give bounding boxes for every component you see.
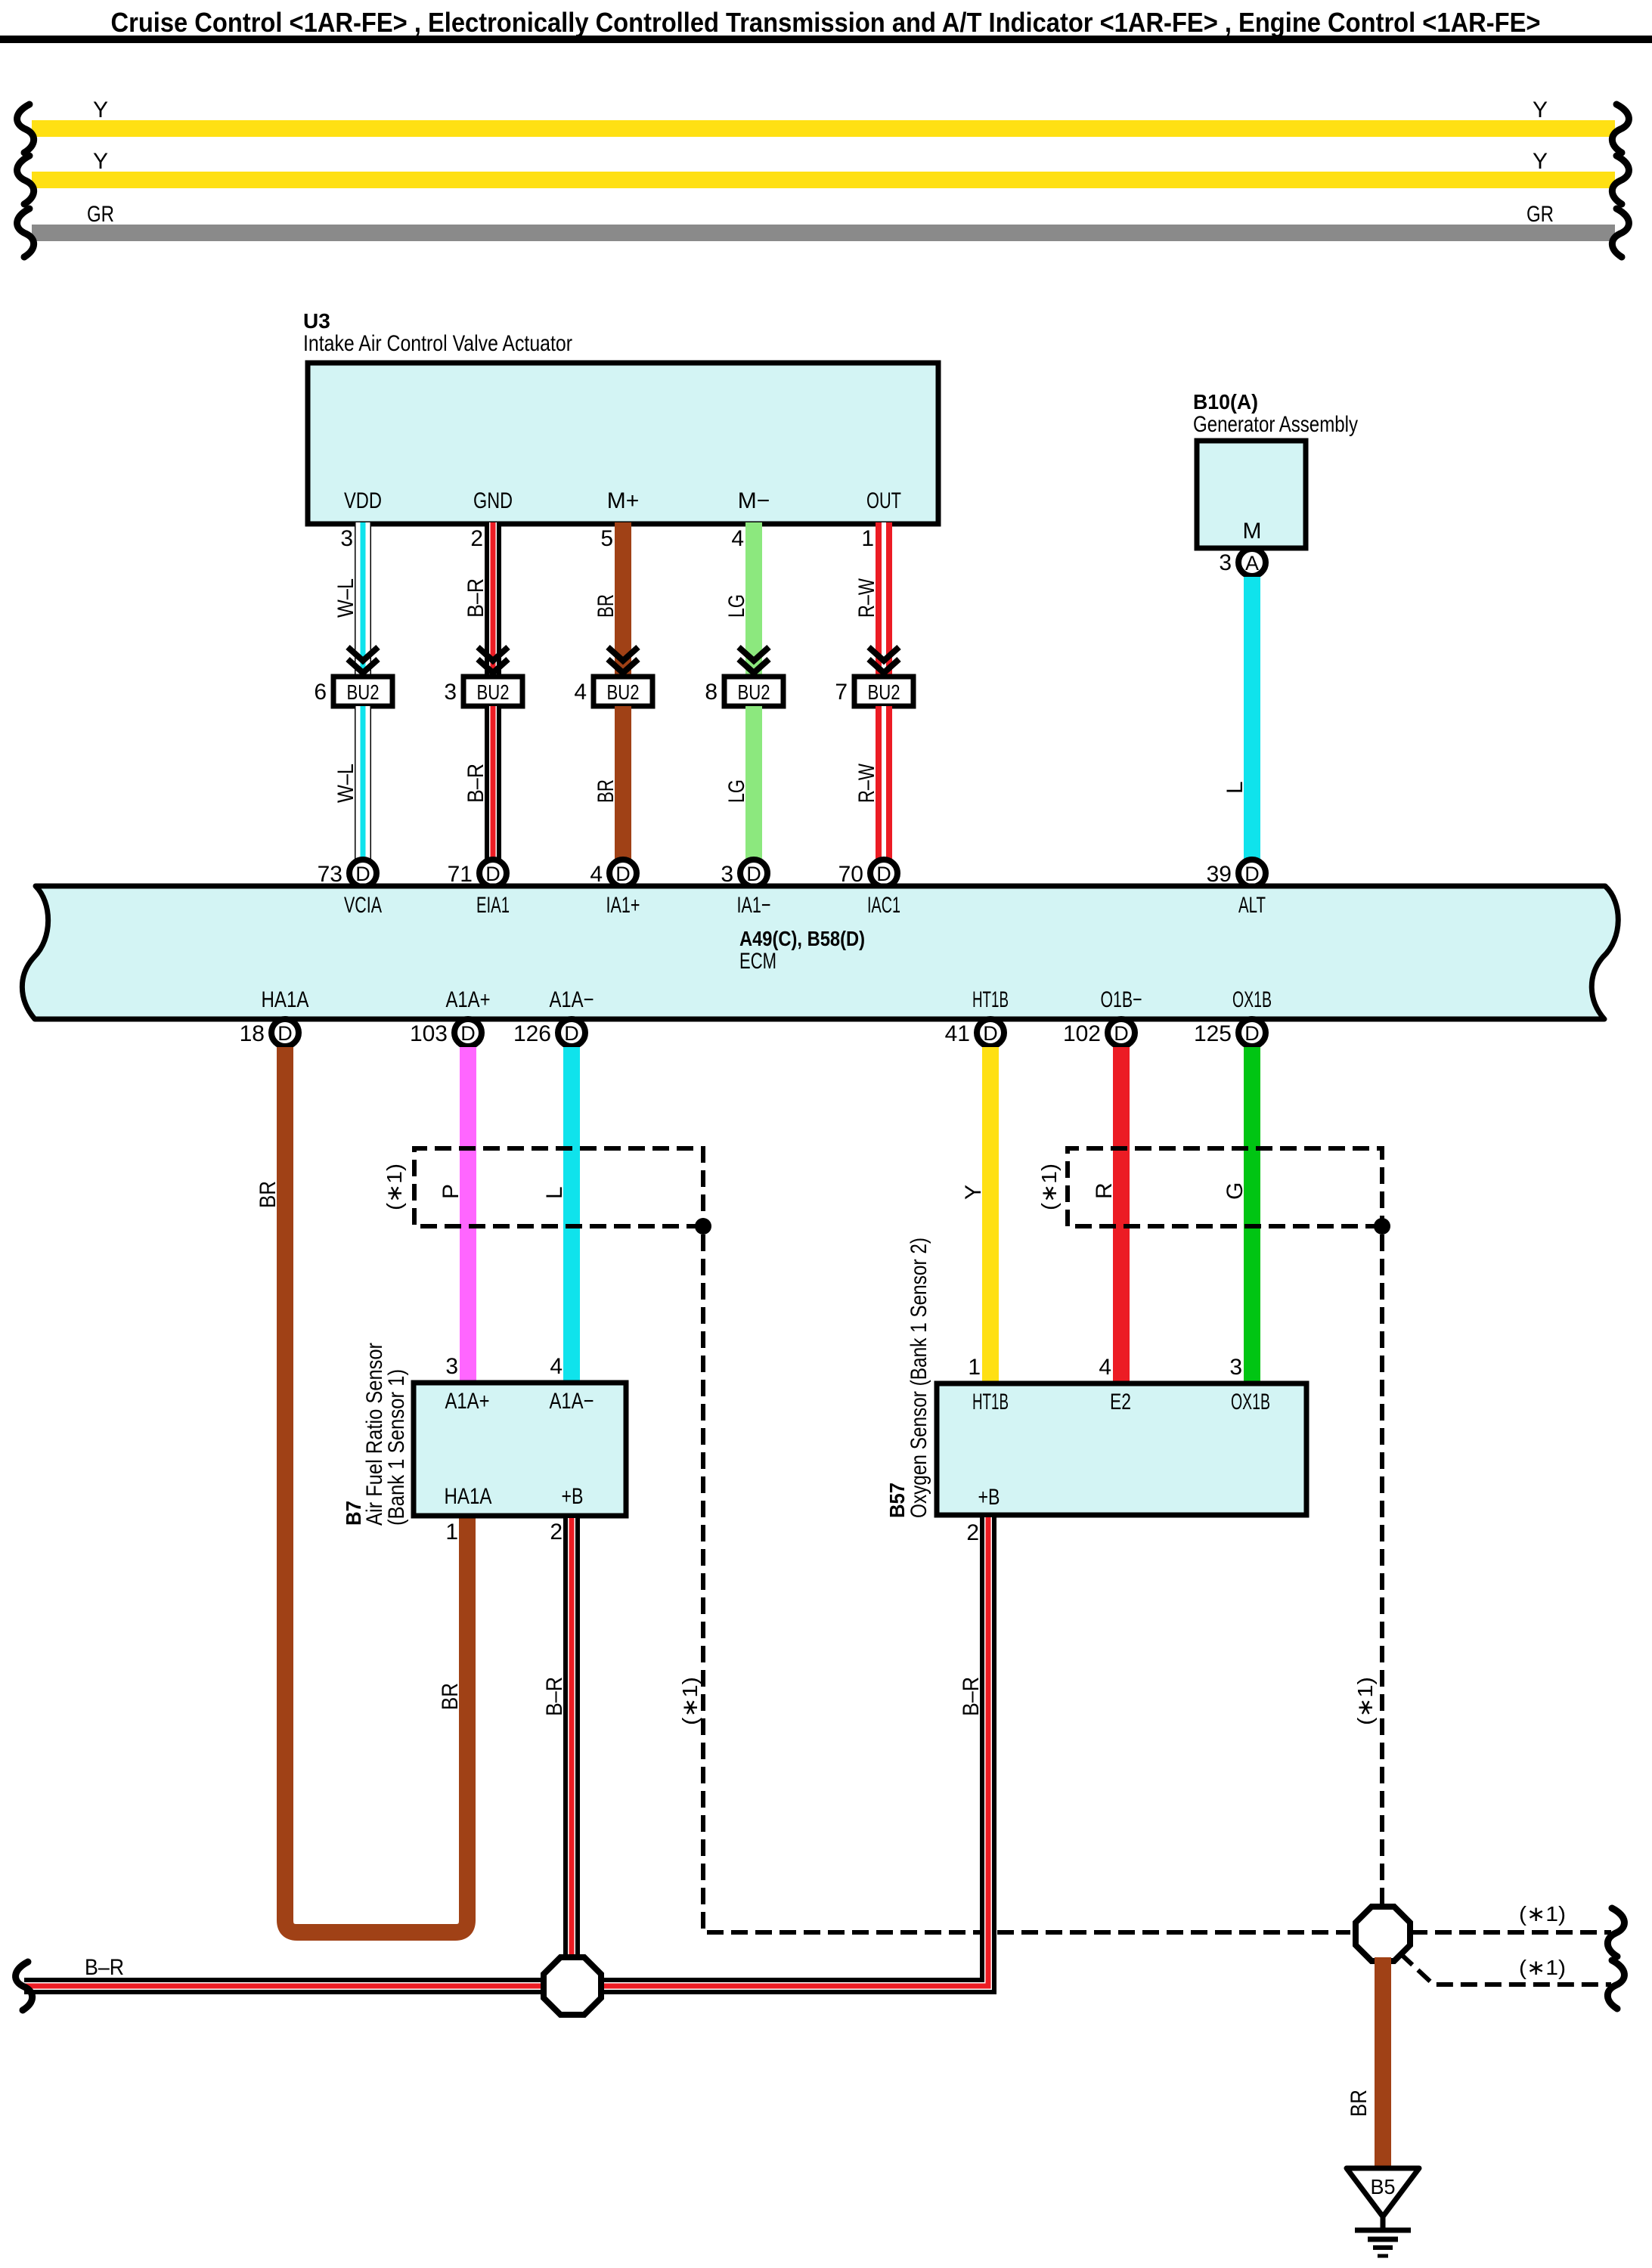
svg-text:W–L: W–L	[333, 764, 358, 803]
brace right (shield 2)	[1607, 1960, 1624, 2009]
svg-text:4: 4	[550, 1354, 563, 1379]
svg-text:LG: LG	[724, 779, 749, 803]
svg-text:B5: B5	[1371, 2175, 1396, 2198]
ECM pin 3 IA1− connector D	[740, 860, 767, 887]
svg-text:+B: +B	[562, 1484, 584, 1509]
wire Y (pass-through)	[32, 172, 1615, 188]
component B7 Air Fuel Ratio Sensor (Bank 1 Sensor 1)	[414, 1383, 626, 1516]
svg-text:Y: Y	[93, 98, 108, 122]
svg-text:2: 2	[550, 1520, 563, 1545]
svg-text:2: 2	[966, 1520, 979, 1545]
ECM pin 4 IA1+ connector D	[609, 860, 637, 887]
svg-text:D: D	[485, 863, 501, 885]
ECM pin 103 A1A+ connector D	[454, 1019, 482, 1046]
svg-text:BU2: BU2	[868, 680, 900, 704]
svg-text:E2: E2	[1110, 1390, 1131, 1414]
svg-text:Oxygen Sensor (Bank 1 Sensor 2: Oxygen Sensor (Bank 1 Sensor 2)	[907, 1238, 931, 1518]
svg-text:M−: M−	[738, 488, 770, 513]
connector arrows	[348, 647, 378, 661]
wire R–W (BU2 to ECM)	[876, 706, 892, 859]
svg-text:4: 4	[590, 862, 603, 887]
svg-text:4: 4	[1099, 1355, 1111, 1380]
svg-text:G: G	[1223, 1182, 1248, 1200]
svg-text:GR: GR	[87, 202, 114, 227]
svg-text:BR: BR	[594, 779, 618, 803]
brace left	[17, 104, 34, 153]
shield (*1) dashed box right	[1068, 1148, 1382, 1226]
connector BU2 pin 3	[463, 677, 522, 706]
brace right	[1612, 156, 1629, 204]
wire B-R (left pass-through to junction J1)	[24, 1978, 542, 1994]
svg-text:D: D	[983, 1022, 998, 1045]
wire L (ECM A1A- to B7 A1A-)	[563, 1047, 580, 1383]
wire B–R (BU2 to ECM)	[485, 706, 501, 859]
wire G (ECM OX1B to B57 OX1B)	[1244, 1047, 1260, 1383]
svg-text:4: 4	[574, 680, 587, 705]
ECM pin 18 HA1A connector D	[271, 1019, 299, 1046]
brace right (shield 1)	[1607, 1908, 1624, 1957]
svg-text:BU2: BU2	[607, 680, 640, 704]
svg-text:39: 39	[1207, 862, 1232, 887]
svg-text:D: D	[746, 863, 761, 885]
junction J2 (octagon splice)	[1356, 1907, 1410, 1961]
dashed shield wire (*1) diagonal to right brace	[1400, 1954, 1611, 1984]
svg-text:BU2: BU2	[347, 680, 380, 704]
connector arrows	[608, 647, 638, 661]
svg-text:ECM: ECM	[739, 949, 776, 974]
svg-text:D: D	[1114, 1022, 1129, 1045]
wire R (ECM O1B- to B57 E2)	[1113, 1047, 1130, 1383]
svg-text:(∗1): (∗1)	[678, 1677, 702, 1725]
svg-text:IAC1: IAC1	[867, 893, 900, 918]
shield (*1) dashed box left	[414, 1148, 703, 1226]
svg-text:B–R: B–R	[463, 578, 488, 618]
svg-text:BU2: BU2	[477, 680, 510, 704]
svg-text:OUT: OUT	[866, 488, 901, 513]
svg-text:GND: GND	[473, 488, 513, 513]
svg-text:1: 1	[445, 1520, 458, 1545]
svg-text:LG: LG	[724, 594, 749, 618]
svg-text:70: 70	[838, 862, 863, 887]
svg-text:8: 8	[705, 680, 718, 705]
svg-text:3: 3	[721, 862, 733, 887]
svg-text:(∗1): (∗1)	[1519, 1956, 1566, 1979]
svg-text:BU2: BU2	[738, 680, 770, 704]
ECM pin 71 EIA1 connector D	[479, 860, 507, 887]
svg-text:Intake Air Control Valve Actua: Intake Air Control Valve Actuator	[303, 331, 572, 356]
svg-text:B–R: B–R	[542, 1677, 567, 1716]
svg-text:HT1B: HT1B	[972, 987, 1009, 1012]
svg-text:A49(C), B58(D): A49(C), B58(D)	[739, 927, 865, 950]
svg-text:IA1+: IA1+	[606, 893, 640, 918]
connector arrows	[739, 647, 769, 661]
svg-text:M: M	[1243, 519, 1262, 544]
svg-text:A1A−: A1A−	[550, 987, 594, 1012]
wire W–L (BU2 to ECM)	[355, 706, 371, 859]
svg-text:1: 1	[968, 1355, 981, 1380]
pin 3 connector A (B10)	[1238, 549, 1266, 576]
svg-text:BR: BR	[438, 1683, 463, 1710]
wire W–L (U3 VDD to BU2)	[355, 522, 371, 677]
svg-text:Y: Y	[1533, 149, 1548, 174]
svg-text:5: 5	[600, 526, 613, 551]
svg-text:B10(A): B10(A)	[1193, 390, 1258, 414]
wire R–W (U3 OUT to BU2)	[876, 522, 892, 677]
svg-text:BR: BR	[256, 1181, 280, 1208]
ECM pin 39 ALT connector D	[1238, 860, 1266, 887]
svg-text:102: 102	[1063, 1021, 1101, 1046]
svg-text:D: D	[1244, 863, 1260, 885]
svg-text:EIA1: EIA1	[476, 893, 510, 918]
connector arrows	[478, 647, 508, 661]
wire LG (BU2 to ECM)	[745, 706, 762, 859]
ECM pin 125 OX1B connector D	[1238, 1019, 1266, 1046]
wire B-R (B57 +B down and left to junction J1)	[603, 1517, 988, 1986]
svg-text:D: D	[277, 1022, 293, 1045]
junction dot (*1) right	[1374, 1218, 1390, 1235]
connector BU2 pin 7	[854, 677, 913, 706]
svg-text:OX1B: OX1B	[1232, 987, 1272, 1012]
svg-text:BR: BR	[1347, 2090, 1372, 2117]
connector BU2 pin 8	[724, 677, 783, 706]
svg-text:HA1A: HA1A	[262, 987, 309, 1012]
wire BR (U3 M+ to BU2)	[615, 522, 631, 677]
ECM pin 73 VCIA connector D	[349, 860, 377, 887]
dashed shield wire (*1) to right brace	[1411, 1930, 1611, 1935]
svg-text:2: 2	[470, 526, 483, 551]
svg-text:3: 3	[1219, 550, 1232, 575]
svg-text:L: L	[542, 1186, 567, 1199]
svg-text:Cruise Control <1AR-FE> , Elec: Cruise Control <1AR-FE> , Electronically…	[111, 7, 1541, 38]
ECM pin 70 IAC1 connector D	[870, 860, 897, 887]
component B57 Oxygen Sensor (Bank 1 Sensor 2)	[937, 1383, 1306, 1515]
svg-text:1: 1	[861, 526, 874, 551]
svg-text:4: 4	[731, 526, 744, 551]
junction J1 (octagon splice)	[544, 1957, 601, 2015]
wire LG (U3 M− to BU2)	[745, 522, 762, 677]
svg-text:IA1−: IA1−	[737, 893, 771, 918]
wire GR (pass-through)	[32, 225, 1615, 241]
svg-text:103: 103	[410, 1021, 448, 1046]
ground B5	[1347, 2168, 1419, 2217]
svg-text:(∗1): (∗1)	[383, 1163, 406, 1210]
svg-text:B57: B57	[885, 1483, 909, 1518]
brace left (B-R)	[16, 1962, 33, 2010]
svg-text:126: 126	[513, 1021, 551, 1046]
svg-text:O1B−: O1B−	[1101, 987, 1142, 1012]
ECM A49(C), B58(D) band	[22, 886, 1618, 1019]
svg-text:D: D	[876, 863, 891, 885]
svg-text:3: 3	[444, 680, 457, 705]
svg-text:18: 18	[240, 1021, 265, 1046]
brace left	[17, 156, 34, 204]
svg-text:(∗1): (∗1)	[1353, 1677, 1377, 1725]
wire BR (junction J2 to ground B5)	[1375, 1957, 1391, 2168]
svg-text:Y: Y	[1533, 98, 1548, 122]
svg-text:(Bank 1 Sensor 1): (Bank 1 Sensor 1)	[384, 1369, 409, 1526]
ECM pin 102 O1B− connector D	[1108, 1019, 1135, 1046]
dashed shield wire (left, down to junction)	[703, 1235, 1350, 1932]
svg-text:3: 3	[340, 526, 353, 551]
connector BU2 pin 4	[594, 677, 652, 706]
svg-text:M+: M+	[607, 488, 640, 513]
svg-text:41: 41	[945, 1021, 970, 1046]
svg-text:R–W: R–W	[854, 578, 879, 618]
wire L (B10 M to ECM ALT)	[1244, 577, 1260, 859]
svg-text:B–R: B–R	[463, 764, 488, 803]
connector arrows	[869, 647, 899, 661]
wire P (ECM A1A+ to B7 A1A+)	[460, 1047, 476, 1383]
svg-text:ALT: ALT	[1238, 893, 1266, 918]
svg-text:D: D	[564, 1022, 579, 1045]
svg-text:W–L: W–L	[333, 578, 358, 618]
svg-text:71: 71	[448, 862, 473, 887]
ECM pin 41 HT1B connector D	[977, 1019, 1004, 1046]
svg-text:A1A+: A1A+	[446, 987, 491, 1012]
svg-text:B–R: B–R	[959, 1677, 984, 1716]
svg-text:P: P	[439, 1184, 463, 1199]
svg-text:D: D	[615, 863, 631, 885]
brace right	[1612, 104, 1629, 153]
svg-text:D: D	[1244, 1022, 1260, 1045]
dashed shield wire (right, down to junction J2)	[1380, 1235, 1384, 1904]
svg-text:R: R	[1092, 1182, 1117, 1199]
svg-text:A1A−: A1A−	[550, 1389, 594, 1414]
svg-text:Generator Assembly: Generator Assembly	[1193, 412, 1358, 437]
svg-text:GR: GR	[1526, 202, 1554, 227]
svg-text:B–R: B–R	[85, 1955, 124, 1980]
wire Y (pass-through)	[32, 120, 1615, 137]
svg-text:73: 73	[318, 862, 342, 887]
title rule	[0, 36, 1652, 43]
svg-text:A1A+: A1A+	[445, 1389, 490, 1414]
wire B-R (B7 +B down to junction J1)	[563, 1518, 580, 1958]
svg-text:+B: +B	[978, 1485, 1000, 1510]
svg-text:L: L	[1223, 781, 1248, 794]
svg-text:BR: BR	[594, 594, 618, 618]
wire BR (ECM HA1A 18 down, U-turn to B7 HA1A)	[285, 1047, 467, 1932]
junction dot (*1) left	[695, 1218, 711, 1235]
svg-text:6: 6	[314, 680, 327, 705]
svg-text:D: D	[460, 1022, 476, 1045]
ECM pin 126 A1A− connector D	[558, 1019, 585, 1046]
svg-text:(∗1): (∗1)	[1037, 1163, 1061, 1210]
brace left	[17, 209, 34, 257]
svg-text:U3: U3	[303, 309, 330, 333]
svg-text:HT1B: HT1B	[972, 1390, 1009, 1414]
wire Y (ECM HT1B to B57 HT1B)	[982, 1047, 999, 1383]
svg-text:VCIA: VCIA	[344, 893, 382, 918]
svg-text:(∗1): (∗1)	[1519, 1902, 1566, 1926]
brace right	[1612, 209, 1629, 257]
wire B–R (U3 GND to BU2)	[485, 522, 501, 677]
svg-text:OX1B: OX1B	[1231, 1390, 1270, 1414]
svg-text:D: D	[355, 863, 370, 885]
svg-text:125: 125	[1194, 1021, 1232, 1046]
svg-text:VDD: VDD	[344, 488, 382, 513]
svg-text:HA1A: HA1A	[445, 1484, 492, 1509]
connector BU2 pin 6	[333, 677, 392, 706]
svg-text:7: 7	[835, 680, 848, 705]
svg-text:Y: Y	[93, 149, 108, 174]
wire BR (BU2 to ECM)	[615, 706, 631, 859]
svg-text:A: A	[1245, 552, 1259, 575]
svg-text:R–W: R–W	[854, 763, 879, 803]
svg-text:3: 3	[1229, 1355, 1242, 1380]
svg-text:Y: Y	[961, 1185, 986, 1200]
svg-text:3: 3	[445, 1354, 458, 1379]
